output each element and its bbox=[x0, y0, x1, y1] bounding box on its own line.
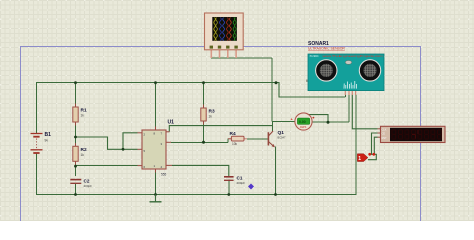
capacitor C1 bbox=[224, 176, 245, 185]
wire: sonar pin1 stub down bbox=[344, 95, 346, 98]
wire: VCC top rail bbox=[36, 82, 276, 84]
7-seg counter display bbox=[378, 126, 446, 142]
svg-text:0.00: 0.00 bbox=[299, 120, 306, 124]
svg-text:1k: 1k bbox=[81, 114, 85, 118]
svg-text:RST: RST bbox=[382, 137, 387, 140]
wire: ground bottom rail bbox=[36, 194, 356, 196]
wire: RST pin down to flag node bbox=[374, 137, 377, 154]
wire: R1R2 junction to U1 TR jog bbox=[76, 137, 138, 149]
wire: flag tip loop bbox=[368, 154, 376, 159]
sheet border (purple) bbox=[20, 46, 421, 221]
svg-text:200pF: 200pF bbox=[237, 181, 246, 185]
wire: ammeter right to pin2 node bbox=[313, 121, 350, 123]
IC U1 (555 timer) bbox=[138, 120, 175, 177]
connector / cable component (top) bbox=[205, 13, 244, 58]
wire: jog up to TR pin bbox=[123, 133, 138, 150]
svg-text:10k: 10k bbox=[232, 142, 238, 146]
svg-text:AMPS: AMPS bbox=[300, 126, 307, 129]
svg-text:C2: C2 bbox=[84, 179, 90, 184]
svg-text:B1: B1 bbox=[45, 132, 52, 138]
pin stubs below bbox=[211, 50, 236, 58]
ground bbox=[150, 195, 162, 202]
ammeter bbox=[291, 113, 315, 130]
capacitor C2 bbox=[70, 179, 92, 188]
wire: U1 DC pin jog up right bbox=[169, 126, 272, 132]
svg-text:555: 555 bbox=[161, 172, 167, 176]
pin stubs bbox=[378, 129, 381, 137]
svg-text:HC-SR04: HC-SR04 bbox=[310, 55, 319, 58]
wire: jog up to R4 bbox=[227, 139, 229, 143]
junction node R2-C2-TH bbox=[74, 165, 77, 168]
junction node R1-R2 bbox=[74, 136, 77, 139]
dim digits bbox=[392, 130, 441, 139]
transistor Q1 bbox=[268, 130, 286, 147]
svg-text:C1: C1 bbox=[237, 176, 243, 181]
wire: ammeter top jog to node bbox=[307, 115, 328, 123]
pads bbox=[210, 46, 238, 49]
marker diamond bbox=[248, 184, 254, 190]
resistor R4 bbox=[228, 131, 247, 146]
wire: U1 VCC vertical bbox=[155, 83, 157, 127]
svg-text:www.TheEngineeringProjects.com: www.TheEngineeringProjects.com bbox=[323, 54, 383, 58]
svg-text:BC547: BC547 bbox=[278, 135, 286, 139]
wire: U1 CV pin to C1 bbox=[172, 165, 229, 176]
junction node emitter-rail bbox=[274, 193, 277, 196]
svg-text:1k: 1k bbox=[81, 153, 85, 157]
logic flag 1 bbox=[357, 153, 375, 162]
svg-text:U1: U1 bbox=[168, 120, 175, 126]
junction node C1-rail bbox=[227, 193, 230, 196]
junction node rail-R1 bbox=[74, 81, 77, 84]
crystal oval bbox=[345, 61, 351, 65]
junction node C2-rail bbox=[74, 193, 77, 196]
wire: Q1 collector vertical bbox=[272, 121, 274, 131]
pin label ticks bbox=[344, 81, 357, 89]
wire: sonar pin3 down to CLK bbox=[352, 95, 377, 129]
battery B1 bbox=[31, 132, 52, 153]
junction node rail-R3 bbox=[202, 81, 205, 84]
wire: R3 bottom lead bbox=[203, 125, 205, 143]
wire: connector bus down to collector node bbox=[271, 58, 273, 121]
wire: Q1 emitter vertical bbox=[275, 147, 277, 195]
wire: C1 bottom lead bbox=[228, 180, 230, 195]
wire: battery top lead bbox=[36, 83, 38, 134]
svg-text:1k: 1k bbox=[209, 115, 213, 119]
wire: U1 output to R3/R4 junction bbox=[171, 141, 228, 143]
wire: VCC jog to sonar Vcc pin bbox=[276, 83, 345, 98]
svg-text:CE: CE bbox=[382, 133, 386, 136]
wire: R2 bottom to TH pin bbox=[76, 165, 138, 167]
wire: U1 GND to rail bbox=[155, 173, 157, 195]
left transducer bbox=[316, 60, 337, 81]
resistor R1 bbox=[73, 104, 87, 126]
pin stubs bbox=[345, 91, 355, 96]
colored strands bbox=[214, 18, 236, 41]
junction node TR-CV tie bbox=[122, 148, 125, 151]
wire: R4 to Q1 base bbox=[247, 138, 268, 140]
svg-text:9v: 9v bbox=[45, 139, 49, 143]
svg-text:1: 1 bbox=[358, 156, 361, 162]
junction node rail-U1 VCC bbox=[154, 81, 157, 84]
junction node rail-sonar jog bbox=[275, 81, 278, 84]
wire: collector node to ammeter bbox=[272, 120, 295, 122]
wire: sonar pin4 (gnd) down to bottom rail bbox=[355, 95, 357, 195]
wire: R3 top lead bbox=[203, 83, 205, 105]
wire: sonar pin2 down to ammeter node bbox=[348, 95, 350, 123]
resistor R2 bbox=[73, 143, 87, 165]
resistor R3 bbox=[201, 105, 215, 125]
svg-text:+: + bbox=[291, 118, 293, 122]
svg-text:CLK: CLK bbox=[382, 128, 387, 131]
wire: R1 R2 C2 chain vertical bbox=[75, 83, 77, 104]
svg-text:Q1: Q1 bbox=[278, 130, 285, 136]
junction node gnd-rail bbox=[154, 193, 157, 196]
sonar SONAR1 (ultrasonic sensor) bbox=[306, 41, 384, 95]
svg-text:200pF: 200pF bbox=[84, 184, 93, 188]
pin stubs bbox=[138, 127, 173, 173]
junction node ammeter-echo bbox=[327, 121, 330, 124]
wire: battery bottom lead bbox=[36, 153, 38, 195]
right transducer bbox=[359, 60, 380, 81]
wire: flag node up to CE pin bbox=[372, 133, 378, 154]
junction node R3-R4-output bbox=[202, 141, 205, 144]
svg-text:ULTRASONIC SENSOR: ULTRASONIC SENSOR bbox=[308, 47, 345, 51]
wire: connector pins bus bbox=[211, 57, 272, 59]
svg-text:R4: R4 bbox=[230, 131, 236, 137]
